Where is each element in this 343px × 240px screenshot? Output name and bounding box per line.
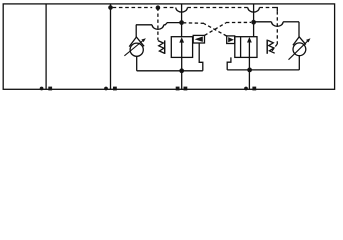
wire: left drain jog — [199, 43, 203, 71]
check valve CV1 ball — [130, 43, 143, 56]
hop arc on bus over left main line — [176, 8, 188, 13]
check valve CV1 (left): seat — [129, 37, 144, 47]
node: bus junction dot for left spring pilot — [156, 5, 161, 10]
wire: right drain jog — [227, 57, 231, 70]
wire: dashed cross pilot D2 (right box to left dot) — [184, 23, 227, 36]
wire: dashed cross pilot D1 (left box to right dot) — [205, 22, 252, 35]
wire: vertical line B (x=110.5) — [110, 4, 112, 89]
check valve CV2 variable arrow — [289, 41, 308, 60]
CB1 flow arrow — [181, 42, 183, 58]
hop arc on bus over right main line — [248, 8, 260, 13]
wire: left lower link y=70.8 — [137, 70, 203, 72]
check valve CV2 ball — [293, 43, 306, 56]
wire: dashed pilot bus y=7.5 (110.5 to 277.2) with hops at 181.6 and 253.6 — [113, 7, 273, 9]
wire: dashed pilot drop to left valve spring (x=157.9) — [157, 8, 159, 41]
wire: CV1 bottom drop — [136, 56, 138, 71]
node: left lower junction dot — [179, 68, 184, 73]
junction dot pair at bottom of left main — [176, 87, 188, 91]
wire: right main entry vertical (x=253.6) — [253, 4, 255, 37]
wire: left vertical line A (x=46) — [45, 4, 47, 89]
CB1 spring zigzag — [158, 41, 165, 54]
check valve CV1 variable arrow — [124, 41, 143, 56]
CB1 pilot triangle — [195, 37, 203, 42]
junction dot pair at bottom of line B — [104, 87, 117, 91]
CB2 inner passage line — [240, 37, 242, 58]
wire: right lower link y=69.9 — [227, 69, 299, 71]
wire: right main exit below valve — [248, 57, 250, 89]
CB2 pilot box — [227, 36, 235, 44]
CB2 flow arrow — [248, 42, 250, 58]
wire: left main vertical below valve to bottom border — [181, 57, 183, 89]
CB2 spring rail — [266, 40, 268, 54]
valve CB1 (left counterbalance): envelope — [171, 37, 192, 58]
node: left main junction dot — [179, 20, 184, 25]
junction dot pair at bottom of right main — [244, 87, 256, 91]
wire: left main vertical (x=181.6) top border to valve — [181, 4, 183, 37]
node: pilot bus tap dot on line B — [108, 5, 113, 10]
junction dot pair at bottom of line A — [40, 87, 52, 91]
valve CB2 (right counterbalance): envelope — [235, 37, 257, 58]
wire: CV2 bottom drop — [298, 56, 300, 70]
CB1 pilot box — [193, 35, 204, 43]
border frame — [3, 4, 334, 89]
CB2 pilot triangle — [228, 37, 234, 42]
CB2 spring zigzag — [268, 40, 275, 53]
CB1 spring rail — [164, 40, 166, 54]
node: right main junction dot — [251, 20, 256, 25]
wire: dashed pilot drop right side (x=277.3) from bus elbow — [273, 8, 278, 12]
check valve CV2 (right): seat — [293, 37, 306, 46]
wire: left link from main dot to check valve top, with jog and hop at 157.9 — [164, 23, 180, 25]
node: right lower junction dot — [247, 68, 252, 73]
wire: right link from main dot to right check valve top, hop at 277.3 — [254, 21, 272, 23]
